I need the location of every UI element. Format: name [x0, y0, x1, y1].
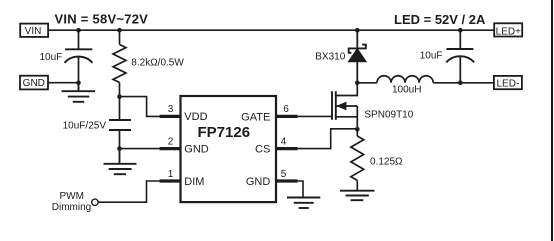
- svg-text:GATE: GATE: [241, 111, 270, 123]
- svg-text:GND: GND: [23, 78, 45, 89]
- node: VIN terminal box: [20, 24, 48, 37]
- svg-text:VIN: VIN: [25, 26, 42, 37]
- node: diode top junction on VIN rail: [355, 28, 360, 33]
- node D: source / CS junction: [355, 127, 360, 132]
- value label: SPN09T10: [364, 110, 413, 121]
- svg-text:GND: GND: [184, 143, 209, 155]
- wire: top VIN rail: [46, 29, 495, 31]
- pin 5 GND stub: [246, 169, 298, 188]
- net label: LED = 52V / 2A: [394, 12, 486, 27]
- node: C2 bottom junction: [117, 146, 122, 151]
- net label: VIN = 58V~72V: [55, 12, 149, 27]
- node: input ground junction: [76, 80, 81, 85]
- wire: C2 bottom node to pin 2: [120, 148, 161, 150]
- op-amp U1: FP7126 controller IC body: [181, 96, 277, 202]
- svg-text:2: 2: [168, 137, 174, 148]
- pin 1 DIM stub: [160, 169, 205, 188]
- ground: sense resistor ground symbol: [340, 191, 375, 201]
- svg-text:100uH: 100uH: [392, 84, 421, 95]
- value label: 0.125 Ohm: [370, 157, 403, 168]
- svg-text:0.125Ω: 0.125Ω: [370, 157, 403, 168]
- wire: page border right: [551, 0, 553, 241]
- node: LED+ terminal box: [494, 23, 522, 37]
- svg-text:10uF/25V: 10uF/25V: [63, 121, 107, 132]
- svg-text:8.2kΩ/0.5W: 8.2kΩ/0.5W: [131, 58, 184, 69]
- svg-text:BX310: BX310: [315, 52, 345, 63]
- svg-text:VDD: VDD: [184, 111, 207, 123]
- wire: pin 5 to ground: [298, 181, 303, 198]
- svg-text:10uF: 10uF: [40, 52, 63, 63]
- node: output cap top junction: [458, 28, 463, 33]
- svg-text:LED = 52V / 2A: LED = 52V / 2A: [394, 12, 486, 27]
- svg-text:Dimming: Dimming: [52, 202, 91, 213]
- svg-text:GND: GND: [246, 176, 271, 188]
- pin 2 GND stub: [160, 137, 209, 156]
- wire: pin 6 GATE to MOSFET gate: [298, 115, 332, 117]
- svg-text:DIM: DIM: [184, 176, 204, 188]
- wire: LED- return rail: [357, 82, 377, 84]
- node: LED- terminal box: [494, 76, 522, 90]
- svg-text:3: 3: [168, 104, 174, 115]
- svg-text:PWM: PWM: [59, 191, 83, 202]
- capacitor C1 10uF input electrolytic: [65, 30, 93, 82]
- ground: pin 5 ground symbol: [287, 198, 320, 209]
- wire: inductor to LED- box: [433, 82, 495, 84]
- capacitor C3 10uF output electrolytic: [446, 30, 474, 83]
- node: PWM input terminal circle: [92, 199, 98, 205]
- value label: 10uF (output cap): [420, 50, 443, 61]
- svg-text:FP7126: FP7126: [198, 124, 251, 141]
- value label: 8.2kOhm/0.5W: [131, 58, 184, 69]
- svg-text:LED+: LED+: [496, 26, 521, 37]
- node C: switch node junction: [355, 81, 360, 86]
- node: GND terminal box: [20, 76, 48, 90]
- value label: 100uH: [392, 84, 421, 95]
- capacitor C2 10uF/25V: [109, 97, 131, 149]
- ground: input ground symbol: [62, 83, 96, 102]
- node B: R1 bottom / VDD node: [117, 94, 122, 99]
- svg-text:6: 6: [283, 104, 289, 115]
- svg-text:10uF: 10uF: [420, 50, 443, 61]
- label: PWM Dimming: [52, 191, 91, 213]
- svg-text:LED-: LED-: [497, 79, 520, 90]
- value label: 10uF (input cap): [40, 52, 63, 63]
- pin 6 GATE stub: [241, 104, 297, 123]
- svg-text:5: 5: [281, 169, 287, 180]
- value label: BX310: [315, 52, 345, 63]
- wire: pin 4 CS to source junction: [298, 129, 358, 149]
- value label: 10uF/25V: [63, 121, 107, 132]
- inductor L1 100uH: [377, 76, 433, 83]
- wire: GND box to input ground node: [48, 82, 79, 84]
- svg-text:VIN = 58V~72V: VIN = 58V~72V: [55, 12, 149, 27]
- node A: input cap top junction: [76, 28, 81, 33]
- svg-text:CS: CS: [255, 144, 270, 156]
- pin 3 VDD stub: [160, 104, 208, 123]
- resistor R2 0.125 Ohm sense: [351, 129, 364, 190]
- svg-text:SPN09T10: SPN09T10: [364, 110, 413, 121]
- svg-text:1: 1: [168, 169, 174, 180]
- ground: C2 ground symbol: [104, 149, 137, 175]
- pin 4 CS stub: [255, 137, 298, 156]
- wire: VDD node to pin 3: [120, 97, 161, 117]
- svg-text:4: 4: [281, 137, 287, 148]
- resistor R1 8.2kOhm/0.5W: [113, 30, 126, 96]
- wire: PWM input to pin 1 DIM: [98, 181, 160, 202]
- diode D1 BX310 schottky: [348, 30, 366, 83]
- transistor Q1 SPN09T10 N-MOSFET: [332, 83, 357, 130]
- node: output cap bottom junction: [458, 81, 463, 86]
- node: R1 top junction: [117, 28, 122, 33]
